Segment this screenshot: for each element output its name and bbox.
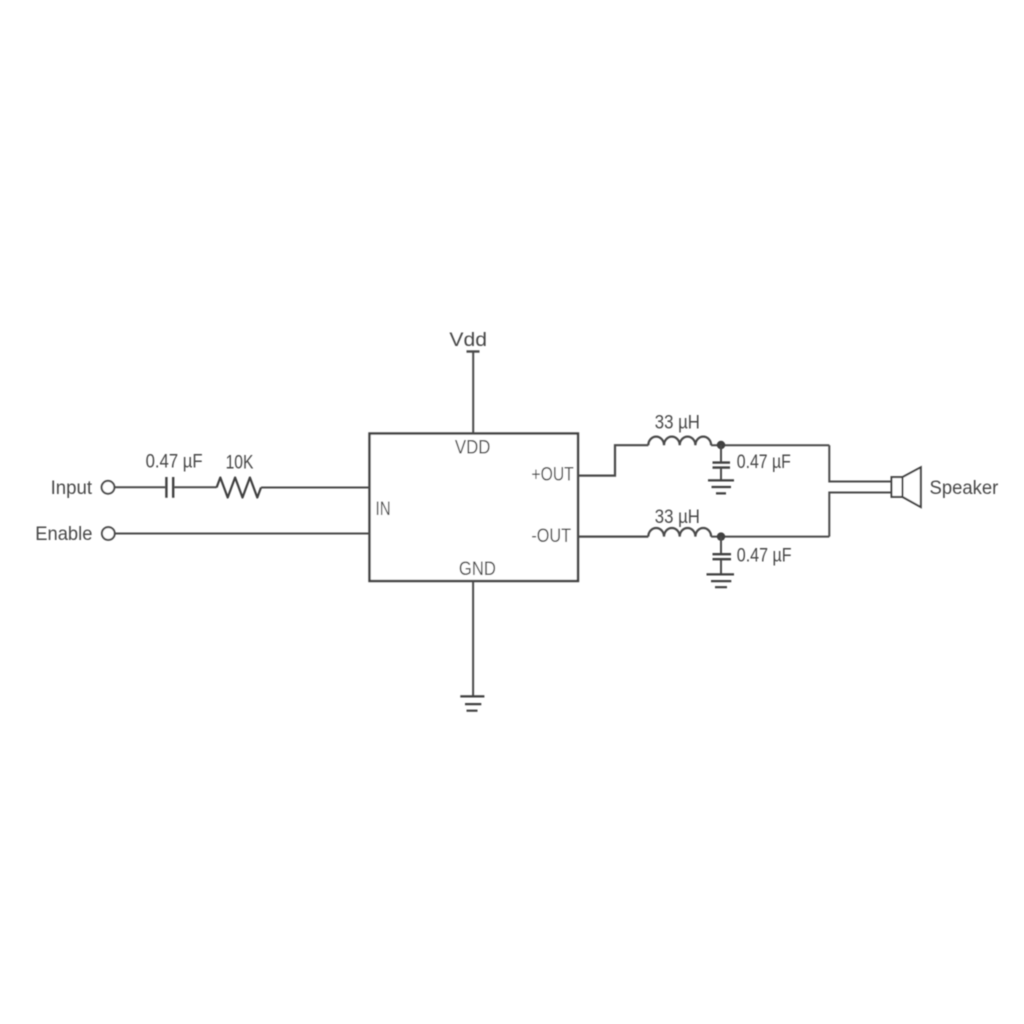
junction node A dot bbox=[717, 441, 725, 449]
wire C1 to R1 bbox=[175, 486, 217, 488]
inductor L1 33uH bbox=[648, 437, 711, 446]
wire L2 to node B bbox=[711, 536, 829, 538]
inductor L2 33uH bbox=[648, 528, 711, 537]
wire node B to speaker fork bbox=[829, 493, 891, 537]
wire L1 to node A bbox=[711, 444, 829, 446]
ground symbol under C3 bbox=[707, 574, 735, 587]
speaker SP1 cone bbox=[903, 467, 921, 507]
op-amp U1 amplifier IC box bbox=[370, 434, 579, 582]
Vdd terminal bar bbox=[467, 350, 480, 352]
wire R1 to IN pin bbox=[261, 487, 370, 489]
Enable terminal circle bbox=[102, 527, 115, 540]
ground symbol main bbox=[460, 696, 484, 710]
svg-text:33 µH: 33 µH bbox=[655, 413, 700, 434]
capacitor C3 plates bbox=[713, 554, 732, 559]
wire Vdd to VDD pin bbox=[472, 352, 474, 434]
svg-text:Vdd: Vdd bbox=[449, 329, 487, 351]
Input terminal circle bbox=[102, 481, 115, 494]
svg-text:0.47 µF: 0.47 µF bbox=[737, 546, 792, 567]
svg-text:33 µH: 33 µH bbox=[655, 507, 700, 528]
svg-text:VDD: VDD bbox=[455, 436, 491, 458]
wire node A to speaker fork bbox=[829, 445, 891, 481]
svg-text:GND: GND bbox=[459, 558, 496, 580]
wire -OUT pin to L2 bbox=[578, 535, 648, 537]
wire node B down to C3 bbox=[720, 537, 722, 554]
wire enable terminal to IC bbox=[115, 533, 370, 535]
wire +OUT pin jog up to filter rail bbox=[578, 445, 648, 475]
svg-text:Enable: Enable bbox=[35, 523, 92, 545]
wire C3 to ground bbox=[720, 560, 722, 574]
speaker SP1 driver rectangle bbox=[892, 477, 903, 497]
junction node B dot bbox=[717, 532, 725, 540]
svg-text:10K: 10K bbox=[226, 453, 254, 474]
svg-text:Speaker: Speaker bbox=[930, 477, 999, 499]
svg-text:Input: Input bbox=[51, 477, 93, 499]
wire input terminal to C1 bbox=[115, 486, 166, 488]
svg-text:+OUT: +OUT bbox=[531, 464, 573, 486]
wire C2 to ground bbox=[720, 468, 722, 480]
capacitor C2 plates bbox=[713, 463, 731, 468]
wire node A down to C2 bbox=[720, 445, 722, 462]
ground symbol under C2 bbox=[708, 480, 734, 493]
svg-text:-OUT: -OUT bbox=[531, 525, 571, 547]
svg-text:IN: IN bbox=[376, 498, 391, 520]
resistor R1 zigzag bbox=[217, 478, 261, 498]
wire GND pin down bbox=[472, 581, 474, 696]
svg-text:0.47 µF: 0.47 µF bbox=[146, 452, 203, 473]
svg-text:0.47 µF: 0.47 µF bbox=[737, 452, 791, 473]
capacitor C1 plates bbox=[166, 477, 173, 498]
